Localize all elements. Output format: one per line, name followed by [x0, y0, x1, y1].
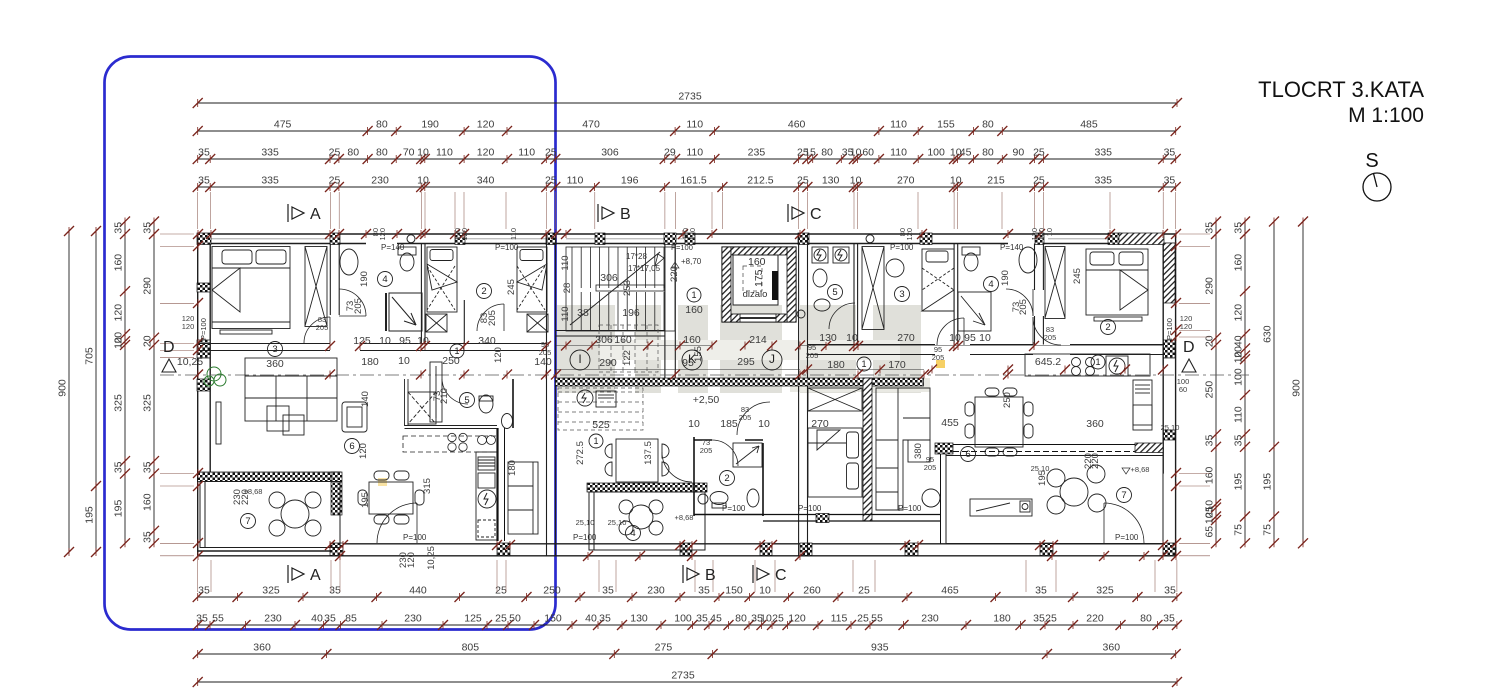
svg-text:25: 25	[797, 175, 809, 187]
exterior wall left	[198, 234, 211, 556]
watermark yellow mark	[936, 360, 945, 368]
svg-text:110: 110	[1233, 406, 1245, 423]
svg-text:205: 205	[353, 298, 364, 314]
svg-text:dizalo: dizalo	[743, 289, 768, 300]
svg-text:C: C	[810, 206, 822, 223]
svg-text:2735: 2735	[678, 91, 702, 103]
svg-text:10,25: 10,25	[426, 546, 437, 570]
svg-text:220: 220	[1090, 453, 1101, 469]
svg-text:290: 290	[599, 357, 617, 369]
svg-text:335: 335	[261, 147, 279, 159]
stair lower flight dashed	[599, 325, 658, 372]
svg-text:195: 195	[1262, 473, 1274, 491]
svg-text:360: 360	[1103, 642, 1121, 654]
svg-text:+8,68: +8,68	[1131, 465, 1150, 474]
svg-text:475: 475	[274, 119, 292, 131]
section marker C	[788, 204, 804, 222]
svg-text:205: 205	[1044, 333, 1057, 342]
sofa left living	[245, 358, 337, 421]
terrace right table	[1047, 465, 1106, 514]
svg-text:10: 10	[759, 585, 771, 597]
svg-text:155: 155	[937, 119, 955, 131]
svg-text:306: 306	[600, 272, 618, 284]
svg-text:80: 80	[982, 119, 994, 131]
coffee tables left	[267, 406, 304, 435]
bottom wall piers	[330, 543, 1176, 556]
svg-text:55: 55	[871, 613, 883, 625]
svg-text:150: 150	[544, 613, 562, 625]
svg-text:705: 705	[84, 347, 96, 365]
svg-text:122: 122	[622, 350, 633, 366]
svg-text:196: 196	[622, 307, 640, 319]
wc room center walls	[694, 437, 763, 516]
svg-text:230: 230	[264, 613, 282, 625]
svg-text:35: 35	[602, 585, 614, 597]
in-plan dimension labels	[177, 272, 1104, 431]
svg-text:TLOCRT 3.KATA: TLOCRT 3.KATA	[1258, 77, 1424, 102]
svg-text:205: 205	[1018, 299, 1029, 315]
svg-text:1: 1	[861, 359, 866, 369]
svg-text:35: 35	[1033, 613, 1045, 625]
svg-text:110: 110	[567, 175, 584, 187]
door arc bath4 left	[339, 289, 366, 316]
door arcs bottom	[377, 503, 1144, 543]
room2 right bed	[1086, 249, 1148, 321]
right chain 900	[1291, 217, 1309, 549]
svg-text:25: 25	[1033, 147, 1045, 159]
svg-text:P=100: P=100	[403, 533, 427, 542]
svg-text:250: 250	[442, 355, 460, 367]
dim row top 4	[193, 175, 1181, 193]
svg-text:10: 10	[398, 355, 410, 367]
svg-text:525: 525	[592, 419, 610, 431]
svg-text:245: 245	[506, 279, 517, 295]
svg-text:35: 35	[1233, 222, 1245, 234]
single bed 1 room2 left	[426, 247, 457, 332]
right chain 2	[1233, 217, 1251, 549]
exterior wall bottom	[198, 544, 1176, 556]
wardrobe right room2	[1045, 247, 1065, 319]
svg-text:25: 25	[1045, 613, 1057, 625]
svg-text:25,10: 25,10	[1161, 423, 1180, 432]
wardrobe X right bedroom lower	[808, 388, 862, 411]
svg-text:335: 335	[261, 175, 279, 187]
svg-text:4: 4	[630, 528, 635, 539]
svg-text:35: 35	[1163, 613, 1175, 625]
svg-text:195: 195	[1233, 473, 1245, 491]
svg-text:120: 120	[788, 613, 806, 625]
svg-text:60: 60	[1179, 385, 1187, 394]
svg-text:75: 75	[1233, 524, 1245, 536]
terrace right outline	[946, 456, 1163, 544]
blue highlight box	[105, 57, 556, 630]
svg-text:110: 110	[560, 255, 571, 270]
svg-text:125: 125	[464, 613, 482, 625]
svg-text:35: 35	[698, 585, 710, 597]
wardrobe room3 left	[305, 247, 327, 327]
svg-text:I: I	[578, 352, 581, 366]
svg-text:40: 40	[1233, 335, 1245, 347]
svg-text:230: 230	[371, 175, 389, 187]
svg-text:35: 35	[142, 461, 154, 473]
svg-text:10: 10	[417, 147, 429, 159]
bathroom4 left fixtures	[340, 247, 416, 275]
kitchen left appliance column	[476, 452, 498, 540]
svg-text:70: 70	[403, 147, 415, 159]
svg-text:205: 205	[316, 323, 329, 332]
svg-text:+8,70: +8,70	[681, 257, 702, 266]
svg-text:1: 1	[593, 436, 598, 446]
kitchen left counter	[403, 433, 497, 452]
svg-text:250: 250	[1204, 381, 1216, 399]
exterior wall top	[198, 234, 1176, 244]
terrace right top wall	[935, 443, 953, 454]
svg-text:A: A	[310, 206, 321, 223]
left chain 705/195	[84, 226, 102, 557]
tv shelf left	[430, 362, 442, 422]
top wall window mid-lines	[211, 238, 1110, 240]
section marker C	[753, 565, 769, 583]
svg-text:17*28: 17*28	[626, 252, 647, 261]
staircase	[566, 247, 675, 331]
svg-text:95: 95	[399, 335, 411, 347]
svg-text:10: 10	[1045, 228, 1054, 236]
section marker A	[288, 204, 304, 222]
svg-text:7: 7	[1121, 490, 1126, 501]
svg-text:180: 180	[361, 356, 379, 368]
svg-text:25: 25	[495, 613, 507, 625]
svg-text:35: 35	[198, 585, 210, 597]
svg-text:253: 253	[622, 280, 633, 296]
svg-text:290: 290	[142, 277, 154, 295]
svg-text:360: 360	[1086, 418, 1104, 430]
svg-text:B: B	[620, 206, 631, 223]
svg-text:10: 10	[950, 175, 962, 187]
exterior wall right	[1163, 234, 1175, 556]
svg-text:J: J	[769, 352, 775, 366]
svg-text:4: 4	[988, 279, 993, 290]
svg-text:160: 160	[1204, 466, 1216, 484]
svg-text:140: 140	[360, 391, 371, 407]
svg-text:120: 120	[460, 228, 469, 241]
svg-text:10,25: 10,25	[177, 356, 203, 368]
wc left door arc	[442, 379, 468, 404]
center balcony table	[619, 500, 663, 535]
svg-text:245: 245	[1072, 268, 1083, 284]
svg-text:900: 900	[1291, 379, 1303, 397]
svg-text:160: 160	[683, 334, 701, 346]
svg-text:80: 80	[376, 147, 388, 159]
svg-text:2: 2	[481, 286, 486, 297]
svg-text:35: 35	[1164, 147, 1176, 159]
svg-text:P=100: P=100	[671, 243, 693, 252]
left chain 3	[113, 217, 131, 549]
svg-text:195: 195	[113, 500, 125, 518]
svg-text:140: 140	[534, 356, 552, 368]
svg-text:35: 35	[599, 613, 611, 625]
svg-text:340: 340	[478, 335, 496, 347]
room3 right wardrobe + bed	[862, 247, 954, 330]
extension lines right	[1179, 234, 1210, 556]
svg-text:45: 45	[960, 147, 972, 159]
svg-text:250: 250	[1002, 392, 1013, 408]
svg-text:160: 160	[685, 304, 703, 316]
svg-text:2735: 2735	[671, 670, 695, 682]
svg-text:10: 10	[417, 335, 429, 347]
svg-text:40: 40	[585, 613, 597, 625]
svg-text:10: 10	[846, 332, 858, 344]
shower bath4 left	[386, 293, 422, 331]
svg-text:25,10: 25,10	[576, 518, 595, 527]
svg-text:35: 35	[142, 222, 154, 234]
dining table left	[358, 471, 424, 524]
svg-text:110: 110	[518, 147, 535, 159]
svg-text:120: 120	[493, 347, 504, 363]
svg-text:120: 120	[1180, 322, 1193, 331]
svg-text:161.5: 161.5	[680, 175, 706, 187]
bath5 right fixtures	[812, 247, 849, 311]
svg-text:100: 100	[1233, 368, 1245, 386]
svg-text:17*17,05: 17*17,05	[628, 264, 661, 273]
svg-text:80: 80	[982, 147, 994, 159]
svg-text:3: 3	[272, 344, 277, 355]
svg-text:38: 38	[577, 307, 589, 319]
svg-text:85: 85	[345, 613, 357, 625]
tiny rotated dims above top wall	[371, 228, 1054, 241]
svg-text:25: 25	[772, 613, 784, 625]
svg-text:205: 205	[539, 348, 552, 357]
svg-text:315: 315	[422, 478, 433, 494]
svg-text:470: 470	[582, 119, 600, 131]
svg-text:C: C	[775, 567, 787, 584]
svg-text:230: 230	[404, 613, 422, 625]
svg-text:80: 80	[821, 147, 833, 159]
svg-text:120: 120	[378, 228, 387, 241]
section marker B	[598, 204, 614, 222]
armchair left living	[342, 402, 367, 432]
svg-text:250: 250	[543, 585, 561, 597]
svg-text:2: 2	[724, 473, 729, 484]
svg-text:35: 35	[198, 175, 210, 187]
svg-text:1: 1	[1095, 357, 1100, 367]
svg-text:160: 160	[748, 256, 766, 268]
svg-text:175: 175	[753, 269, 765, 287]
sofa right living	[876, 388, 940, 510]
svg-text:10: 10	[688, 418, 700, 430]
svg-text:6: 6	[349, 441, 354, 452]
svg-text:220: 220	[1086, 613, 1104, 625]
kitchen right	[1025, 354, 1152, 430]
svg-text:180: 180	[993, 613, 1011, 625]
svg-text:205: 205	[739, 413, 752, 422]
wc center shower	[733, 443, 762, 467]
svg-text:28: 28	[562, 283, 573, 294]
svg-text:120: 120	[477, 147, 495, 159]
svg-text:110: 110	[686, 147, 703, 159]
svg-text:+2,50: +2,50	[693, 394, 720, 406]
wc center toilet	[710, 492, 728, 505]
bottom wall right apt inner	[763, 514, 940, 523]
svg-text:10: 10	[417, 175, 429, 187]
in-plan ticks row2	[193, 370, 1013, 380]
svg-text:35: 35	[113, 222, 125, 234]
svg-text:+8,68: +8,68	[244, 487, 263, 496]
svg-text:25: 25	[329, 147, 341, 159]
svg-text:M 1:100: M 1:100	[1348, 104, 1424, 127]
plant green	[204, 367, 226, 386]
svg-text:10: 10	[850, 147, 862, 159]
svg-text:190: 190	[359, 271, 370, 287]
svg-text:325: 325	[142, 394, 154, 412]
svg-text:215: 215	[987, 175, 1005, 187]
corridor dim lines	[556, 346, 1163, 370]
svg-text:295: 295	[737, 356, 755, 368]
interior walls vertical	[330, 234, 1043, 556]
svg-text:35: 35	[696, 613, 708, 625]
svg-text:110: 110	[890, 147, 907, 159]
svg-text:D: D	[163, 339, 175, 356]
svg-text:90: 90	[1013, 147, 1025, 159]
svg-text:35: 35	[324, 613, 336, 625]
svg-text:100: 100	[927, 147, 945, 159]
corridor heavy wall (hatched band)	[556, 378, 924, 386]
svg-text:460: 460	[788, 119, 806, 131]
svg-text:440: 440	[409, 585, 427, 597]
in-plan ticks row1	[325, 341, 1039, 351]
section marker A	[288, 565, 304, 583]
wall kitchen/living left	[496, 428, 498, 541]
svg-text:110: 110	[686, 119, 703, 131]
section marker B	[683, 565, 699, 583]
svg-text:35: 35	[1204, 222, 1216, 234]
svg-text:195: 195	[360, 492, 371, 508]
dim row bottom 1	[193, 585, 1182, 603]
svg-text:110: 110	[560, 306, 571, 321]
svg-text:P=100: P=100	[573, 533, 597, 542]
svg-text:120: 120	[1233, 304, 1245, 322]
svg-text:270: 270	[897, 175, 915, 187]
svg-text:25,10: 25,10	[1031, 464, 1050, 473]
svg-text:80: 80	[376, 119, 388, 131]
svg-text:325: 325	[262, 585, 280, 597]
svg-text:212.5: 212.5	[747, 175, 773, 187]
compass circle	[1363, 173, 1391, 201]
sideboard right living	[970, 499, 1032, 516]
svg-text:325: 325	[1096, 585, 1114, 597]
door arc wc center	[712, 440, 738, 466]
svg-text:35: 35	[142, 531, 154, 543]
svg-text:P=100: P=100	[495, 243, 519, 252]
svg-text:130: 130	[630, 613, 648, 625]
svg-text:35: 35	[1035, 585, 1047, 597]
dim row bottom 3	[193, 642, 1181, 660]
svg-text:35: 35	[113, 461, 125, 473]
svg-text:214: 214	[749, 334, 767, 346]
svg-text:25: 25	[329, 175, 341, 187]
doors right bedroom band	[829, 289, 1061, 345]
svg-text:55: 55	[212, 613, 224, 625]
svg-text:2: 2	[1105, 322, 1110, 333]
center balcony outline	[587, 483, 707, 492]
svg-text:P=100: P=100	[1165, 318, 1174, 340]
svg-text:120: 120	[477, 119, 495, 131]
svg-text:210: 210	[439, 388, 450, 404]
svg-text:35: 35	[1164, 585, 1176, 597]
svg-text:120: 120	[905, 228, 914, 241]
right chain 1	[1204, 217, 1222, 549]
svg-text:900: 900	[57, 379, 69, 397]
svg-text:B: B	[705, 567, 716, 584]
svg-text:190: 190	[1000, 270, 1011, 286]
interior walls horizontal (bedroom band bottom)	[198, 331, 1163, 355]
svg-text:25,10: 25,10	[608, 518, 627, 527]
svg-text:465: 465	[941, 585, 959, 597]
stairs below (dashed)	[558, 388, 643, 430]
svg-text:137.5: 137.5	[643, 441, 654, 465]
svg-text:360: 360	[253, 642, 271, 654]
svg-text:29: 29	[664, 147, 676, 159]
svg-text:110: 110	[509, 228, 518, 240]
svg-text:50: 50	[509, 613, 521, 625]
svg-text:95: 95	[964, 332, 976, 344]
dim row top 2	[193, 119, 1181, 137]
svg-text:4: 4	[382, 274, 387, 285]
svg-text:805: 805	[462, 642, 480, 654]
sofa left 2	[508, 462, 538, 534]
svg-text:10: 10	[760, 613, 772, 625]
bed right bedroom lower	[808, 428, 862, 497]
svg-text:115: 115	[831, 613, 848, 625]
svg-text:80: 80	[1140, 613, 1152, 625]
svg-text:5: 5	[464, 395, 469, 406]
svg-text:25: 25	[545, 147, 557, 159]
svg-text:15: 15	[804, 147, 816, 159]
svg-text:270: 270	[897, 332, 915, 344]
bed double room3 left	[212, 247, 290, 335]
svg-text:196: 196	[621, 175, 639, 187]
svg-text:290: 290	[1204, 277, 1216, 295]
svg-text:220: 220	[669, 266, 680, 282]
svg-text:P=100: P=100	[199, 318, 208, 340]
svg-text:150: 150	[725, 585, 743, 597]
svg-text:1: 1	[454, 346, 459, 356]
svg-text:272.5: 272.5	[575, 441, 586, 465]
wc left shower	[408, 392, 436, 424]
svg-text:125: 125	[353, 335, 371, 347]
svg-text:205: 205	[700, 446, 713, 455]
svg-text:75: 75	[1262, 524, 1274, 536]
svg-text:205: 205	[487, 310, 498, 326]
svg-text:K: K	[688, 352, 696, 366]
circled room/axis labels	[241, 272, 1132, 541]
svg-text:185: 185	[720, 418, 738, 430]
svg-text:205: 205	[932, 353, 945, 362]
svg-text:7: 7	[245, 516, 250, 527]
svg-text:35: 35	[1164, 175, 1176, 187]
svg-text:180: 180	[507, 460, 518, 476]
door arc room3 left	[304, 317, 330, 343]
terrace left top wall	[198, 472, 341, 482]
svg-text:270: 270	[811, 418, 829, 430]
single bed 2 room2 left	[517, 247, 548, 332]
svg-text:130: 130	[819, 332, 837, 344]
svg-text:P=100: P=100	[1115, 533, 1139, 542]
left chain 4	[142, 217, 160, 549]
left chain 900	[57, 226, 75, 557]
svg-text:120: 120	[688, 228, 697, 241]
axis dash-dot line	[160, 374, 1250, 376]
svg-text:230: 230	[921, 613, 939, 625]
